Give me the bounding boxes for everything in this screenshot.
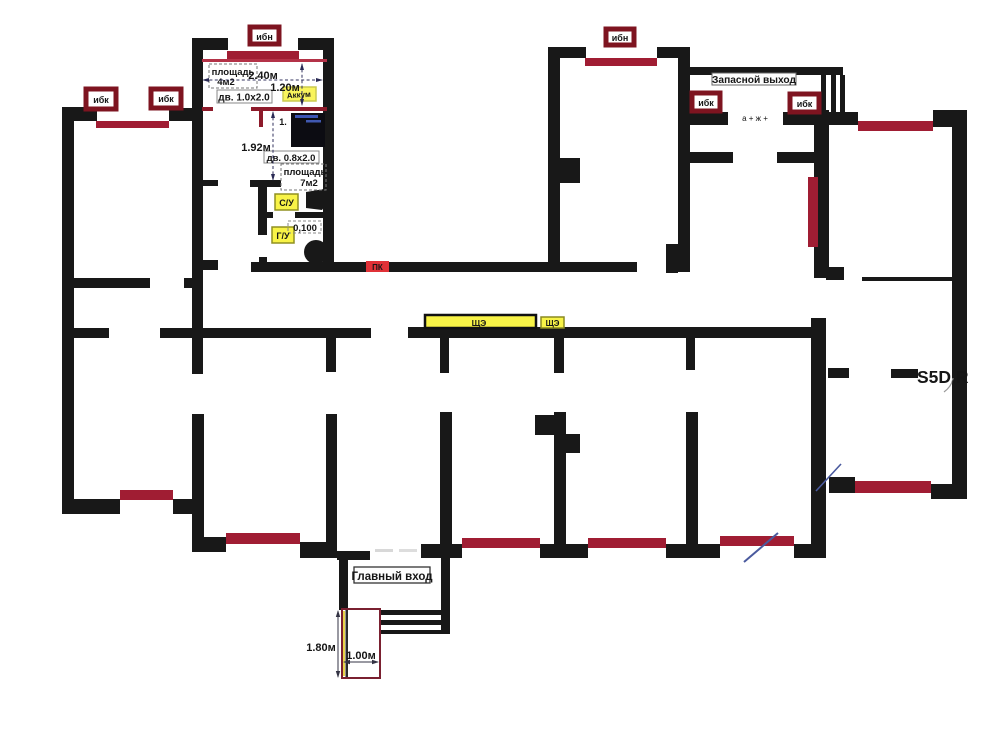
yellow box Аккум [283,87,316,101]
window centerright room top [585,58,657,66]
svg-text:1.00м: 1.00м [346,650,376,662]
dim line 1.20 vertical [301,64,303,105]
wall corridor long segment (y327 x408-820) [408,327,820,338]
wall zapas lower left (y152) [690,152,733,163]
wall stub S3 below corridor [440,338,449,373]
toilet circle [304,240,328,264]
wall right-column mid stub left (y368) [828,368,849,378]
stoop left dark line [346,610,349,677]
red door line battery room right [251,107,327,111]
label red ПК on hall wall [366,261,389,272]
svg-text:ибк: ибк [698,98,714,108]
wall partition P1 [192,414,204,551]
wall bottom L2b thin to door [337,551,370,560]
gray door arc right column [944,378,953,392]
window topleft room [96,121,169,128]
yellow bar ЩЭ big [425,315,536,328]
wall right-column bottom left piece [829,477,855,493]
wall topleft-room bottom left segment [73,278,150,288]
dim arrow 1.00 left [343,660,350,664]
svg-text:ПК: ПК [372,263,383,272]
wall partition P4 [554,412,566,552]
wall bottom L2 right [300,542,337,558]
wall tower top left segment [192,38,228,50]
wall bottom L1 right [173,499,192,514]
label ибк topleft room 1 [86,89,116,109]
sink pentagon [306,189,330,210]
wall stub battery-room left upper [201,180,218,186]
dim line 1.00 horizontal [344,661,378,663]
wall bottom between windows 2 [666,544,720,558]
wall stub right of stairs (y112 x829-858) [829,112,858,125]
yellow box СУ [275,194,298,210]
entrance step 1 [379,610,443,615]
wall centerright-room top left [548,47,586,58]
window vertical zapas right wall [808,177,818,247]
wall stub door jamb right-column (y267) [826,267,844,280]
wall bottom right of main door [421,544,462,558]
window bottom b1 [462,538,540,548]
svg-text:дв. 0.8х2.0: дв. 0.8х2.0 [267,153,316,164]
wall tower left vertical (x192 y38-374) [192,38,203,374]
wall corridor left segment (y328 x73-109) [73,328,109,338]
wall corridor mid segment (y328 x160-371) [160,328,371,338]
svg-text:ибк: ибк [797,99,813,109]
wall zapas lower right (y152) [777,152,814,163]
wall partition P5 [686,412,698,547]
wall partition P2 [326,414,337,558]
wall su-gu divider left [266,212,273,218]
stair line 2 [831,75,836,113]
yellow box ЩЭ small [541,317,564,328]
wall stub S2 below corridor [326,335,336,372]
label ибк topleft room 2 [151,89,181,108]
wall right-column left vertical upper (x814 y110-278) [814,110,829,278]
blue marks on equipment box [295,115,318,118]
wall hall top right segment [666,262,690,272]
window right-column bottom [855,481,931,493]
svg-text:ибн: ибн [256,32,273,42]
wall topleft-room bottom right segment [184,278,201,288]
wall topleft-room top left segment [62,107,97,121]
svg-text:S5D.R: S5D.R [917,367,969,387]
svg-text:а + ж +: а + ж + [742,114,768,123]
wall su left vertical [258,186,267,235]
yellow box ГУ [272,227,294,243]
red door line battery room left [202,107,213,111]
dashed box площадь 7м2 [281,164,326,190]
dim line 2.40 horizontal dashed [204,79,321,81]
box glavny vhod [354,567,430,583]
wall bottom L2 left [192,537,226,552]
wall centerright-room top right [657,47,690,58]
wall bottom between windows 1 [540,544,588,558]
box дв 1.0х2.0 [217,90,272,103]
wall thin partition right-column (y277) [862,277,952,281]
dim arrow 1.80 bottom [336,671,340,678]
svg-text:Запасной выход: Запасной выход [712,75,796,86]
wall bottom L1 left [62,499,120,514]
wall su-gu divider right [295,212,323,218]
wall su partition horizontal [250,180,281,187]
wall hall top long (y262 x251-637) [251,262,637,272]
pillar box left of P4 [535,415,562,435]
wall stub S4 below corridor [554,338,564,373]
dim arrow 2.40 right [316,78,323,82]
wall bottom-right corner [931,484,967,499]
svg-text:ЩЭ: ЩЭ [546,319,560,328]
svg-text:Главный вход: Главный вход [351,571,433,583]
stair line 1 [821,75,826,113]
svg-text:ибн: ибн [612,33,629,43]
window bottom L1 [120,490,173,500]
svg-text:1.80м: 1.80м [306,642,336,654]
red door frame vertical bit [259,111,263,127]
wall topleft-room top right segment [169,108,201,121]
svg-text:4м2: 4м2 [217,77,235,88]
wall centerright-room left vertical [548,47,560,272]
wall stub S5 below corridor [686,338,695,370]
dim arrow 1.80 top [336,610,340,617]
dim arrow 1.20 top [300,63,304,70]
dashed box площадь 4м2 [209,64,257,88]
wall bottom right corner piece [794,544,824,558]
dark equipment box battery room [291,113,325,147]
wall zapas top (y67 x688-843) [688,67,843,75]
entrance step 3 [379,630,443,634]
wall right-column mid stub right (y369) [891,369,918,378]
dim arrow 1.92 bottom [271,174,275,181]
svg-text:Г/У: Г/У [276,231,290,241]
vestibule left wall [339,558,348,610]
stoop rectangle outline [342,609,380,678]
wall su nub lower [259,257,267,264]
dim arrow 2.40 left [202,78,209,82]
window tower top [227,51,299,60]
label ибн centerright room top [606,29,634,45]
blue pen diagonal near right wall [816,464,841,491]
svg-text:ибк: ибк [93,95,109,105]
svg-text:ЩЭ: ЩЭ [472,318,487,328]
window bottom L2 [226,533,300,544]
window bottom b3 [720,536,794,546]
label ибн tower top [250,27,279,44]
svg-text:дв. 1.0х2.0: дв. 1.0х2.0 [218,93,270,104]
wall zapas mid left (y112) [688,112,728,125]
svg-text:площадь: площадь [284,167,327,178]
dim line 1.92 vertical [272,112,274,180]
window right-column top [858,121,933,131]
label ибк zapas left [692,93,720,111]
label ибк zapas right [790,94,819,112]
svg-text:0,100: 0,100 [293,223,317,234]
red thin line under tower window [202,59,327,62]
svg-text:7м2: 7м2 [300,178,318,189]
pillar box right of P4 [562,434,580,453]
wall door jamb right of hall-top [666,244,678,273]
svg-text:С/У: С/У [279,198,294,208]
wall tower top right segment [298,38,334,50]
entrance step 2 [379,620,443,625]
wall outer-right vertical (x952 y110-499) [952,110,967,499]
dashed box 0,100 [288,221,321,233]
svg-text:Аккум: Аккум [287,90,312,101]
blue pen diagonal over bottom window [744,533,778,562]
svg-text:ибк: ибк [158,94,174,104]
stoop left yellow line [343,611,345,676]
wall tower right vertical (x323 y38-272) [323,38,334,272]
wall centerright-room pilaster [548,158,580,183]
wall centerright-room right vertical [678,47,690,272]
dim arrow 1.20 bottom [300,99,304,106]
wall right-area left vertical (x811 y318-558) [811,318,826,558]
box zapasnoy vyhod [712,73,796,85]
window bottom b2 [588,538,666,548]
stair line 3 [840,75,845,113]
faint door marks main entrance [375,549,393,552]
vestibule right wall [441,558,450,634]
wall zapas mid right (y112) [783,112,823,125]
svg-text:1.: 1. [279,117,287,127]
dim arrow 1.00 right [372,660,379,664]
box дв 0.8х2.0 [264,151,319,163]
dim arrow 1.92 top [271,111,275,118]
wall stub battery-room left lower [201,260,218,270]
dim line 1.80 vertical [337,611,339,677]
wall outer-left vertical [62,108,74,512]
wall partition P3 [440,412,452,558]
wall top-right corner [933,110,967,127]
